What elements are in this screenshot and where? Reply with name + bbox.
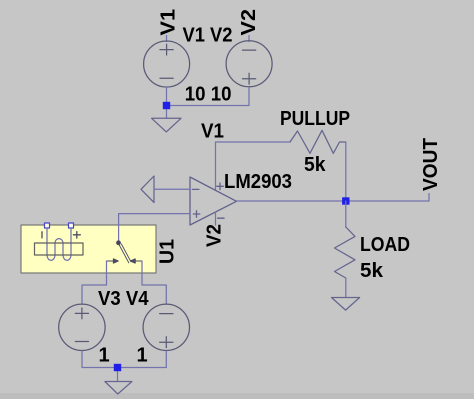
voltage source V1 [144,41,190,87]
svg-text:5k: 5k [360,260,384,282]
junction output node [342,197,349,204]
svg-text:5k: 5k [304,154,326,176]
coil core rect [35,243,84,255]
junction bottom sources [114,364,121,371]
wire inverting input [154,188,190,190]
label plus [73,232,80,239]
ground top [152,118,181,132]
coil winding [47,228,71,260]
wire load to ground [345,278,347,298]
wire V1 bottom to junction [166,87,168,118]
relay U1 yellow body [21,225,156,273]
label minus (rotated bar) [41,232,43,238]
svg-text:1: 1 [137,345,148,367]
wire left contact to V3 [82,261,107,304]
pin square right [69,223,74,228]
svg-text:V1 V2: V1 V2 [183,24,233,46]
wire output [237,200,430,202]
voltage source V4 [143,304,189,350]
svg-text:V1: V1 [201,121,224,143]
wire VOUT stub [428,194,430,202]
resistor PULLUP [290,130,346,153]
junction top sources [163,102,170,109]
switch blade [119,244,131,263]
voltage source V3 [59,304,105,350]
voltage source V2 [226,41,272,87]
svg-text:LOAD: LOAD [360,234,410,256]
switch right contact arrow [130,259,142,263]
svg-text:PULLUP: PULLUP [280,108,350,130]
ground bottom right [332,298,360,311]
svg-text:V1: V1 [158,9,180,36]
svg-text:1: 1 [99,345,110,367]
svg-text:U1: U1 [157,239,179,264]
pin square left [45,223,50,228]
resistor LOAD [335,227,356,278]
wire V1 top stub [166,36,168,42]
ground left (rotated) at inverting input [141,176,154,203]
wire right contact to V4 [142,261,166,304]
wire output down to load [345,201,347,227]
op-amp U LM2903 [190,177,237,225]
switch pivot [117,241,121,245]
wire non-inverting input [119,214,190,241]
svg-text:VOUT: VOUT [420,138,442,191]
wire V- pin [215,212,217,225]
wire V3 bottom [82,351,166,368]
ground bottom left [105,382,132,395]
svg-text:V3 V4: V3 V4 [98,288,149,310]
wire ground stub bottom [117,368,119,382]
wire pullup down to output [345,142,347,201]
svg-text:10 10: 10 10 [185,83,232,105]
wire supply V+ [216,142,291,190]
wire V2 top stub [248,36,250,42]
svg-text:LM2903: LM2903 [224,171,292,193]
wire junction to V2 bottom [167,88,250,106]
svg-text:V2: V2 [238,9,260,36]
switch left contact arrow [107,259,119,263]
svg-text:V2: V2 [204,224,226,247]
